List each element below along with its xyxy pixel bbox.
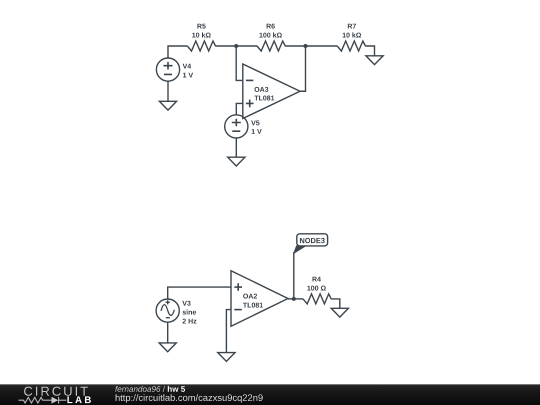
flag box NODE3 [297,234,328,246]
ground under V3 [159,343,176,352]
wire R4 to ground [331,299,340,308]
wire V3 top to op-amp non-inverting input [168,287,231,299]
ground under V4 [159,101,176,110]
voltage source V5 [225,115,248,138]
ground under OA2 inverting input [218,353,235,362]
wire node A to op-amp inverting input [236,46,243,80]
label OA2 [243,294,257,299]
wire op-amp OA3 output to node B [300,46,306,91]
logo squiggle and diode [19,397,67,404]
logo LAB text [67,396,91,403]
wire V4 top to R5 [168,46,187,58]
label OA3 [255,87,269,92]
wire V4 bottom to ground [167,81,169,101]
ground right of R4 [331,308,348,317]
label V5 [251,121,259,126]
flag pointer NODE3 [294,246,306,253]
node NODE3 junction [292,297,296,301]
footer credit line [115,386,160,392]
op-amp OA2 non-inverting input marker [234,283,242,291]
wire node B to R7 [306,45,338,47]
voltage source V4 [156,58,179,81]
node A junction [234,44,238,48]
op-amp OA3 [243,64,300,119]
ground right of R7 [366,56,383,65]
footer url line [116,394,263,403]
op-amp OA3 inverting input marker [246,79,254,81]
label R6 [267,24,275,29]
resistor R6 [257,41,285,51]
label NODE3 [300,238,325,243]
wire R5 to node A [215,45,236,47]
wire R7 to ground [365,46,374,56]
logo CIRCUIT text [24,387,88,396]
op-amp OA2 [231,271,288,327]
label V4 [183,64,192,69]
resistor R4 [303,294,331,304]
resistor R7 [337,41,365,51]
wire V3 bottom to ground [167,322,169,343]
resistor R5 [187,41,215,51]
voltage source V3 sine [156,299,179,322]
wire OA2 output to node NODE3 [288,298,303,300]
wire V5 bottom to ground [235,138,237,157]
wire NODE3 up to flag [293,252,295,299]
wire node A to R6 [236,45,257,47]
wire V5 to op-amp non-inverting input [236,103,243,114]
wire op-amp OA2 inverting input to ground [226,310,231,353]
label R4 [313,277,321,282]
footer bar [0,384,540,405]
ground under V5 [228,157,245,166]
op-amp OA2 inverting input marker [234,309,242,311]
label R7 [348,24,356,29]
wire R6 to node B [285,45,305,47]
op-amp OA3 non-inverting input marker [246,100,254,108]
label V3 [182,301,190,306]
node B junction [304,44,308,48]
label R5 [197,24,205,29]
